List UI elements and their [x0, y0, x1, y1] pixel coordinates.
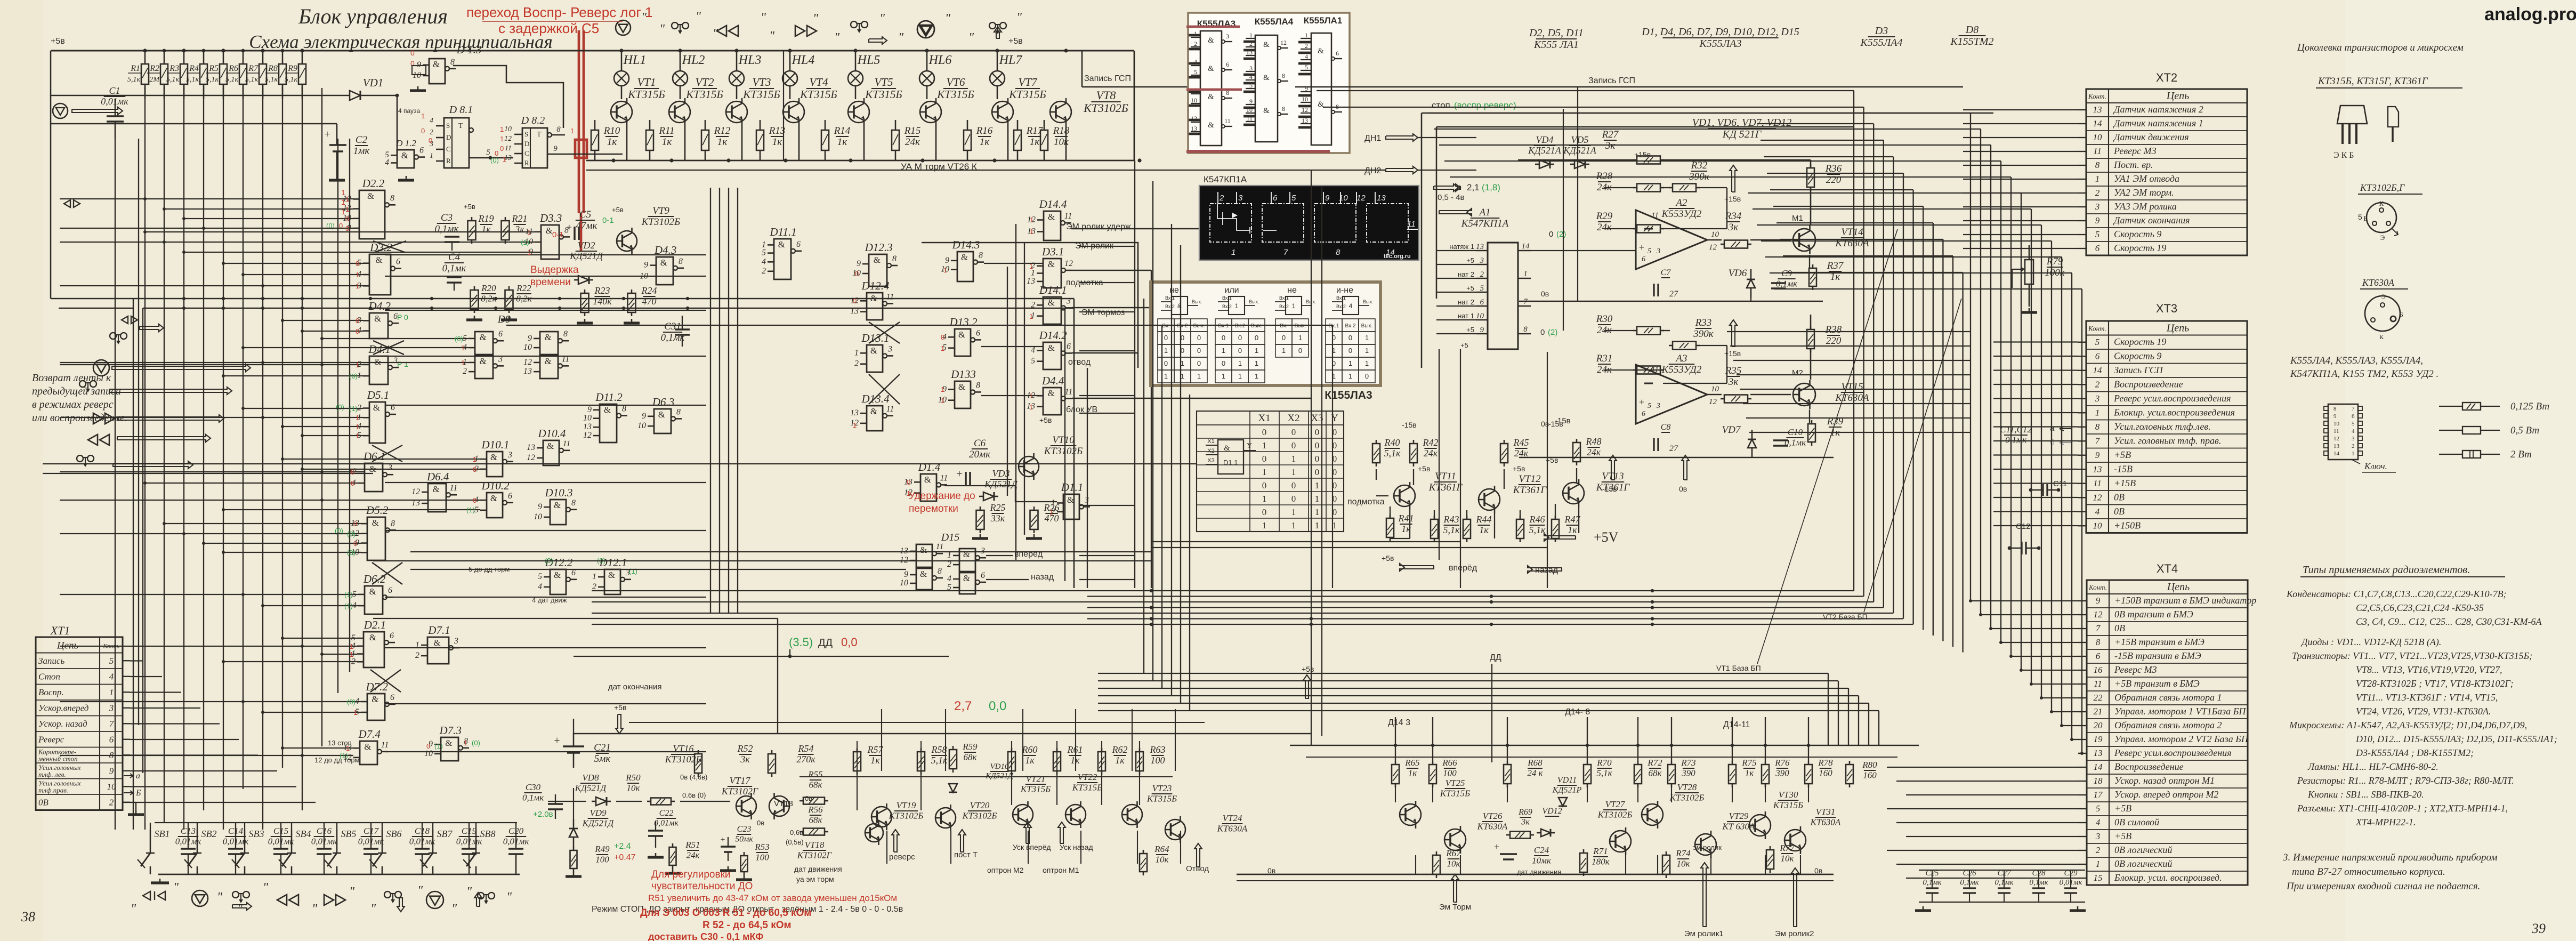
svg-text:0В силовой: 0В силовой	[2114, 817, 2159, 827]
svg-text:Вх.: Вх.	[1280, 323, 1287, 329]
svg-text:8: 8	[1523, 325, 1528, 334]
gate D13.2	[955, 329, 971, 356]
svg-text:1к: 1к	[772, 136, 783, 148]
svg-text:1: 1	[500, 125, 504, 133]
svg-text:+: +	[1639, 242, 1644, 253]
svg-text:R23: R23	[594, 285, 610, 296]
svg-text:0В: 0В	[38, 798, 49, 808]
svg-text:0: 0	[1348, 347, 1352, 355]
svg-text:0: 0	[473, 465, 477, 473]
svg-text:&: &	[604, 405, 611, 415]
icon fast	[324, 895, 334, 905]
svg-text:10: 10	[424, 749, 433, 758]
svg-text:R78: R78	[1818, 758, 1833, 768]
DIP14 package	[2328, 404, 2358, 460]
svg-text:14: 14	[2093, 365, 2103, 375]
arrow	[1730, 165, 1737, 192]
svg-text:R59: R59	[962, 742, 978, 752]
gate D6.3	[654, 409, 671, 433]
svg-text:R50: R50	[625, 773, 641, 783]
resistor R18	[1040, 130, 1048, 150]
svg-text:7: 7	[2352, 406, 2355, 412]
svg-text:+5в: +5в	[1513, 464, 1525, 473]
resistor R47	[1552, 519, 1559, 538]
svg-text:2: 2	[1480, 270, 1484, 279]
svg-text:1: 1	[1315, 494, 1320, 504]
gate D10.1	[487, 452, 503, 477]
svg-text:390к: 390к	[1693, 328, 1714, 340]
svg-text:&: &	[372, 518, 379, 528]
arrow	[232, 903, 252, 910]
svg-text:10: 10	[1339, 194, 1348, 203]
svg-text:VT7: VT7	[1018, 76, 1038, 89]
svg-text:5,1к: 5,1к	[1443, 525, 1460, 535]
svg-text:": "	[312, 902, 318, 916]
horizontal band into XT3	[1727, 331, 1971, 332]
arrow	[1400, 564, 1434, 571]
icon pair	[143, 891, 165, 900]
svg-text:(1,8): (1,8)	[1482, 182, 1500, 192]
svg-text:VT24, VT26, VT29, VT31-КТ630А.: VT24, VT26, VT29, VT31-КТ630А.	[2356, 706, 2491, 717]
svg-text:5: 5	[2095, 337, 2100, 347]
svg-text:0,1мк: 0,1мк	[435, 223, 459, 235]
svg-text:8: 8	[2333, 406, 2337, 412]
svg-text:R53: R53	[754, 842, 769, 852]
resistor R67	[1433, 855, 1440, 874]
svg-text:&: &	[374, 357, 381, 367]
svg-text:D2.1: D2.1	[364, 618, 386, 631]
bottom switch bus	[158, 874, 520, 875]
resistor R38	[1807, 329, 1814, 349]
svg-text:100: 100	[595, 854, 609, 864]
svg-text:&: &	[608, 570, 615, 580]
svg-text:0: 0	[1222, 359, 1225, 367]
svg-text:10: 10	[637, 421, 646, 430]
resistor R70	[1584, 765, 1591, 784]
svg-text:Вых.: Вых.	[1249, 299, 1259, 304]
svg-text:&: &	[433, 638, 440, 648]
svg-text:20мк: 20мк	[969, 449, 991, 460]
svg-text:+5в: +5в	[612, 206, 624, 214]
svg-text:0: 0	[356, 317, 359, 325]
svg-text:SB4: SB4	[296, 829, 311, 839]
svg-text:R18: R18	[1053, 125, 1070, 136]
svg-text:0: 0	[351, 468, 354, 476]
verticals from A1 region	[1460, 349, 1461, 588]
svg-text:VD6: VD6	[1729, 268, 1747, 279]
resistor R26	[1030, 510, 1038, 529]
svg-text:": "	[761, 11, 766, 25]
svg-text:1: 1	[503, 155, 506, 163]
arrow	[892, 830, 899, 852]
svg-text:9: 9	[2095, 450, 2100, 460]
svg-text:R43: R43	[1443, 514, 1459, 525]
ground	[2077, 906, 2079, 911]
svg-text:D10.3: D10.3	[545, 486, 573, 499]
wires from resistors R1-R9 down	[144, 84, 146, 90]
gate D4.4	[1043, 388, 1061, 415]
bottom middle transistor wires	[857, 741, 858, 810]
svg-text:R62: R62	[1112, 744, 1128, 755]
icon cassette	[110, 333, 116, 339]
gate D6.2	[365, 586, 383, 614]
svg-text:0,5 - 4в: 0,5 - 4в	[1438, 193, 1465, 202]
arrow	[1528, 566, 1562, 573]
verticals middle cluster	[710, 188, 711, 613]
svg-text:&: &	[547, 441, 554, 451]
svg-text:&: &	[490, 493, 497, 503]
svg-text:": "	[466, 885, 472, 899]
gate D1.2	[397, 150, 414, 168]
svg-text:5,1к: 5,1к	[225, 76, 239, 84]
flip-flop D8.2	[522, 128, 547, 168]
svg-text:КД521Д: КД521Д	[985, 772, 1014, 781]
svg-text:-15в: -15в	[1548, 420, 1563, 428]
svg-text:&: &	[367, 191, 374, 201]
svg-text:R15: R15	[904, 125, 921, 136]
svg-text:12: 12	[1280, 39, 1287, 46]
svg-text:3к: 3к	[1521, 817, 1530, 826]
svg-text:1: 1	[853, 421, 857, 429]
svg-text:10: 10	[107, 782, 117, 792]
svg-text:C8: C8	[1661, 423, 1671, 432]
svg-text:Эм Торм: Эм Торм	[1439, 903, 1471, 912]
svg-text:R57: R57	[867, 744, 884, 755]
resistor R24	[628, 293, 636, 312]
svg-text:6: 6	[2096, 651, 2101, 661]
svg-text:13: 13	[850, 408, 859, 417]
svg-text:6: 6	[2352, 413, 2355, 420]
svg-text:Вх.2: Вх.2	[1345, 323, 1356, 329]
svg-text:1: 1	[1523, 270, 1528, 278]
svg-text:12: 12	[504, 135, 512, 143]
resistor R40	[1372, 444, 1380, 463]
svg-text:0: 0	[353, 520, 357, 528]
stop net rectangle	[1422, 112, 1993, 114]
svg-text:5: 5	[1648, 402, 1651, 410]
svg-text:": "	[217, 890, 223, 904]
svg-text:КТ630А: КТ630А	[2362, 277, 2395, 288]
svg-text:1: 1	[346, 744, 350, 752]
svg-text:X1: X1	[1258, 413, 1270, 424]
svg-text:68к: 68к	[809, 815, 823, 825]
ground	[159, 879, 161, 883]
resistor R74	[1662, 855, 1670, 874]
horizontal bundle middle bottom	[592, 590, 1854, 591]
svg-text:&: &	[372, 694, 378, 704]
svg-text:HL7: HL7	[999, 53, 1023, 67]
svg-text:1: 1	[1029, 262, 1033, 270]
svg-text:0в: 0в	[1679, 485, 1687, 493]
ground	[474, 316, 475, 320]
svg-text:10: 10	[504, 125, 512, 133]
svg-text:R31: R31	[1596, 353, 1613, 364]
svg-text:0: 0	[1197, 347, 1201, 355]
resistor R58	[917, 752, 925, 771]
svg-text:КД521Д: КД521Д	[582, 818, 615, 828]
svg-text:КТ3102Б: КТ3102Б	[889, 810, 924, 821]
svg-text:D 8.2: D 8.2	[521, 115, 545, 126]
svg-text:8: 8	[2095, 160, 2100, 170]
svg-text:SB7: SB7	[437, 829, 453, 839]
svg-text:D10.2: D10.2	[481, 479, 510, 492]
svg-text:D7.1: D7.1	[427, 624, 450, 637]
svg-text:D 8.1: D 8.1	[449, 104, 473, 116]
svg-text:1: 1	[464, 739, 467, 747]
verticals to bottom-right resistors	[1395, 717, 1396, 761]
svg-text:5: 5	[1291, 194, 1296, 203]
wire loop around D14 cluster	[922, 243, 1138, 368]
resistor R45	[1500, 444, 1508, 463]
arrow	[1386, 134, 1418, 141]
svg-text:&: &	[1067, 495, 1074, 505]
svg-text:5: 5	[2358, 213, 2362, 221]
svg-text:(2): (2)	[1548, 328, 1557, 337]
svg-text:3: 3	[2095, 831, 2101, 841]
svg-text:R28: R28	[1596, 171, 1613, 182]
resistor R42	[1410, 444, 1417, 463]
svg-text:6: 6	[1226, 61, 1229, 68]
svg-text:А2: А2	[1675, 197, 1687, 208]
svg-text:&: &	[545, 356, 552, 366]
svg-text:ХТ4: ХТ4	[2157, 562, 2178, 575]
svg-text:12: 12	[411, 487, 420, 496]
svg-text:D3-К555ЛА4 ; D8-К155ТМ2;: D3-К555ЛА4 ; D8-К155ТМ2;	[2355, 747, 2474, 758]
svg-text:ДН2: ДН2	[1364, 166, 1381, 175]
ground	[2029, 308, 2030, 312]
resistor R22	[505, 290, 513, 309]
svg-text:1: 1	[1029, 312, 1033, 320]
potentiometer R79	[2025, 260, 2033, 284]
svg-text:VT15: VT15	[1841, 381, 1863, 392]
icon cassette	[232, 891, 239, 898]
svg-text:3: 3	[2095, 202, 2100, 212]
arrow	[869, 37, 887, 44]
svg-text:D12.4: D12.4	[861, 279, 890, 292]
svg-text:R51 увеличить до 43-47 кОм от: R51 увеличить до 43-47 кОм от завода уме…	[648, 893, 897, 903]
top right nest corners group A	[1317, 90, 1854, 91]
bottom middle buses	[574, 733, 1311, 735]
svg-text:12: 12	[527, 453, 535, 462]
svg-text:(3.5): (3.5)	[789, 636, 813, 649]
svg-text:9: 9	[642, 412, 646, 421]
svg-text:D6.4: D6.4	[426, 470, 449, 483]
svg-text:Ускор.вперед: Ускор.вперед	[38, 703, 89, 713]
svg-text:D10.1: D10.1	[481, 438, 510, 451]
svg-text:0: 0	[1238, 334, 1242, 342]
svg-text:13: 13	[1377, 194, 1386, 203]
svg-text:2: 2	[415, 651, 419, 660]
svg-text:дат движения: дат движения	[794, 865, 842, 873]
svg-text:КТ361Г: КТ361Г	[1513, 485, 1547, 496]
svg-text:VT20: VT20	[970, 800, 990, 810]
svg-text:9: 9	[538, 502, 542, 511]
svg-text:9: 9	[2333, 413, 2337, 420]
svg-text:8: 8	[2095, 422, 2100, 432]
svg-text:&: &	[874, 255, 881, 265]
svg-text:(0,5в): (0,5в)	[786, 838, 804, 846]
svg-text:0: 0	[1282, 334, 1286, 342]
svg-text:2М: 2М	[149, 76, 160, 84]
svg-text:Запись ГСП: Запись ГСП	[1084, 74, 1131, 83]
svg-text:R80: R80	[1862, 760, 1877, 770]
svg-text:VT26: VT26	[1483, 811, 1503, 821]
svg-text:D14.4: D14.4	[1039, 198, 1067, 211]
arrow	[1024, 822, 1031, 843]
svg-text:a: a	[2050, 424, 2055, 433]
feedback wire D1.3	[453, 66, 563, 128]
svg-text:УА2 ЭМ торм.: УА2 ЭМ торм.	[2114, 187, 2174, 198]
arrow	[109, 387, 232, 395]
arrow	[1544, 534, 1576, 541]
gate D6.1	[365, 463, 383, 492]
svg-text:R68: R68	[1527, 758, 1543, 768]
svg-text:тлф. лев.: тлф. лев.	[38, 770, 66, 778]
svg-text:Ускор. вперед оптрон М2: Ускор. вперед оптрон М2	[2114, 789, 2218, 800]
svg-text:R13: R13	[769, 125, 786, 136]
arrow	[1730, 320, 1737, 347]
svg-text:8: 8	[1282, 105, 1285, 112]
svg-text:9: 9	[1249, 98, 1253, 105]
icon cassette	[672, 22, 678, 29]
svg-text:SB8: SB8	[480, 829, 496, 839]
svg-text:5,1к: 5,1к	[1384, 448, 1401, 459]
svg-text:D11.1: D11.1	[769, 226, 796, 238]
svg-text:чувствительности ДО: чувствительности ДО	[651, 881, 753, 892]
transistor VT13	[1563, 482, 1584, 504]
svg-text:11: 11	[1064, 212, 1072, 221]
svg-text:11: 11	[505, 144, 512, 152]
svg-text:13: 13	[1246, 49, 1253, 56]
svg-text:3: 3	[980, 546, 985, 556]
svg-text:КТ630А: КТ630А	[1477, 821, 1508, 831]
svg-text:+5: +5	[1466, 256, 1474, 264]
svg-text:&: &	[1263, 74, 1270, 82]
svg-text:+: +	[567, 222, 572, 232]
svg-text:VT11... VT13-КТ361Г : VT14, V: VT11... VT13-КТ361Г : VT14, VT15,	[2356, 692, 2498, 703]
0v bus A3	[1519, 457, 1834, 459]
svg-text:R5: R5	[208, 64, 219, 73]
resistor R75	[1729, 765, 1736, 784]
svg-text:5,1к: 5,1к	[285, 76, 298, 84]
svg-text:перемотки: перемотки	[909, 503, 958, 514]
svg-text:100: 100	[1151, 755, 1165, 766]
svg-text:и-не: и-не	[1336, 286, 1353, 295]
resistor R2	[164, 51, 165, 64]
svg-text:": "	[879, 12, 885, 26]
svg-text:(0): (0)	[455, 335, 463, 343]
misc long verticals center	[1311, 171, 1312, 745]
0v bus A2	[1519, 301, 1823, 302]
svg-text:КД521Р: КД521Р	[1552, 785, 1582, 794]
svg-text:Для регулировки: Для регулировки	[651, 869, 731, 880]
svg-text:Э: Э	[2380, 234, 2385, 242]
svg-text:+5: +5	[1460, 341, 1468, 349]
svg-text:R20: R20	[481, 283, 496, 293]
svg-text:С11,C12: С11,C12	[2000, 424, 2032, 435]
svg-text:": "	[1016, 11, 1022, 25]
svg-text:R45: R45	[1513, 437, 1529, 448]
svg-text:1: 1	[2095, 174, 2100, 184]
red vertical wire	[578, 30, 580, 213]
svg-text:D4.1: D4.1	[368, 343, 391, 356]
ground	[573, 872, 575, 876]
horizontal bundle lower	[1098, 673, 1828, 674]
svg-text:24к: 24к	[687, 850, 700, 860]
svg-text:Вх.2: Вх.2	[1336, 304, 1346, 309]
resistor R1	[144, 51, 146, 64]
svg-text:D15: D15	[941, 532, 959, 543]
svg-text:+15В транзит в БМЭ: +15В транзит в БМЭ	[2114, 637, 2204, 647]
bottom right top bus	[1290, 745, 1919, 746]
svg-text:R64: R64	[1154, 844, 1169, 854]
gate D6.4	[428, 484, 446, 512]
svg-text:VT5: VT5	[874, 76, 893, 89]
svg-text:Вх.1: Вх.1	[1165, 295, 1175, 301]
svg-text:10к: 10к	[1781, 853, 1795, 863]
cross-coupling wires	[373, 341, 404, 355]
svg-text:10к: 10к	[1054, 136, 1069, 148]
svg-text:D2.2: D2.2	[362, 177, 385, 190]
svg-text:1: 1	[1197, 372, 1201, 380]
svg-text:(0): (0)	[347, 530, 356, 538]
svg-text:D9: D9	[497, 313, 511, 325]
svg-text:+5в: +5в	[464, 203, 475, 211]
svg-text:2: 2	[592, 582, 596, 591]
svg-text:Вых.: Вых.	[1363, 299, 1373, 304]
svg-text:VT18: VT18	[805, 840, 825, 850]
resistor R61	[1053, 752, 1061, 771]
svg-text:&: &	[545, 332, 552, 342]
gate D13.1	[867, 345, 883, 372]
svg-text:6: 6	[981, 571, 985, 580]
svg-text:13: 13	[583, 422, 592, 431]
svg-text:12: 12	[583, 431, 592, 440]
svg-text:R55: R55	[807, 769, 822, 779]
svg-text:8: 8	[976, 381, 980, 390]
svg-text:5: 5	[1480, 284, 1484, 293]
wire D8.1 to D8.2	[469, 157, 513, 159]
svg-text:нат 1: нат 1	[1458, 312, 1474, 320]
svg-text:3. Измерение напряжений прои: 3. Измерение напряжений производить приб…	[2282, 852, 2497, 863]
icon cassette	[989, 22, 996, 29]
svg-text:КТ315Б: КТ315Б	[685, 88, 723, 101]
svg-text:7: 7	[1283, 248, 1288, 257]
svg-text:3: 3	[1656, 402, 1660, 410]
gate D5.1	[369, 402, 385, 443]
ground	[1033, 534, 1035, 538]
svg-text:6: 6	[2095, 351, 2100, 361]
svg-text:14: 14	[1522, 242, 1530, 251]
svg-text:R12: R12	[714, 125, 731, 136]
svg-text:5: 5	[538, 572, 542, 581]
svg-text:11: 11	[1246, 115, 1253, 122]
svg-text:3: 3	[109, 703, 114, 713]
svg-text:21: 21	[2094, 706, 2103, 717]
svg-text:C: C	[524, 149, 529, 157]
icon node	[53, 103, 68, 118]
svg-text:(0): (0)	[347, 549, 356, 557]
svg-text:27: 27	[1669, 289, 1678, 299]
svg-text:27: 27	[1669, 444, 1678, 453]
svg-text:D6.3: D6.3	[652, 396, 674, 408]
icon arrows2	[122, 316, 138, 324]
resistor R6	[243, 51, 244, 64]
gate D12.3	[869, 254, 887, 286]
svg-text:(2): (2)	[1556, 230, 1566, 239]
svg-text:": "	[263, 881, 269, 895]
right drop of top bus	[1134, 51, 1135, 160]
